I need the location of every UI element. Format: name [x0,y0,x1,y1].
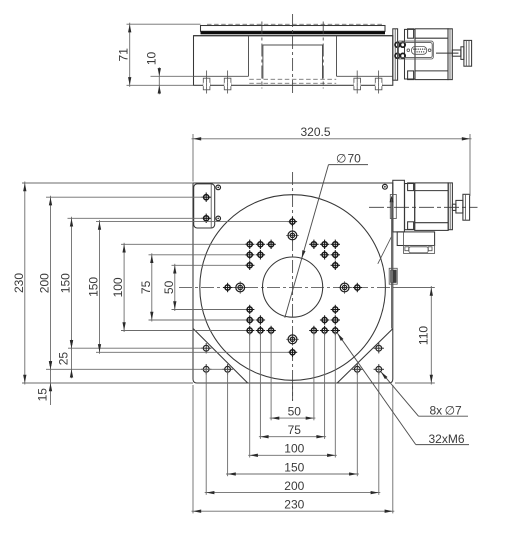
plan view: M6 hole top axis [288,217,297,226]
extension line left y=383.0 [22,382,193,384]
svg-text:230: 230 [284,498,304,512]
side view: table edge centerline left [261,22,263,89]
extension line bottom x=227.6 [227,369,229,476]
side view: vertical centerline [292,14,294,93]
extension line bottom x=249.7 [249,331,251,458]
dimension 75 (bottom) [259,423,326,438]
svg-text:150: 150 [87,277,101,297]
label 8xØ7 with leader [380,371,468,418]
side view: motor shaft [452,50,461,56]
svg-text:71: 71 [117,48,131,62]
side view: right cavity bottom [337,75,393,77]
dimension 200 (bottom) [205,479,381,494]
side view: motor end cap [448,29,452,80]
dimension 100 (bottom) [248,442,337,457]
svg-text:230: 230 [12,273,26,293]
plan view: corner chamfer bottom-left [193,329,247,383]
plan view: M6 hole left axis [223,283,232,292]
extension line bottom x=206.2 [205,369,207,495]
plan view: motor centerline [369,206,478,208]
side view: table plate thick edge [201,31,386,34]
plan view: motor flange tab bottom [408,222,414,230]
dimension 50 (left) [162,264,177,311]
side view: body top edge [194,35,393,37]
plan view: corner hole BR-right [374,364,384,374]
dimension 320.5 extension right [469,134,471,196]
plan view: bracket leader arrow [378,196,394,329]
side view: D-sub connector [398,41,434,59]
dimension 110 extension top [396,287,435,289]
plan view: counterbore hole bottom [286,333,299,346]
plan view: bracket screw upper [216,185,221,190]
side view: table top plate [201,26,386,32]
dimension 320.5 [192,125,472,140]
extension line bottom x=313.9 [313,331,315,421]
side view: motor flange tab top [408,29,414,38]
dimension 200 (left) [38,196,53,371]
svg-text:150: 150 [284,460,304,474]
plan view: M6 hole group bottom-left [245,305,276,335]
plan view: base corner screw [383,184,388,189]
extension line left y=254.8 [149,254,247,256]
svg-text:50: 50 [162,280,176,294]
svg-text:∅ 70: ∅ 70 [336,152,361,166]
extension line left y=320.0 [149,319,247,321]
dimension 150 inner (left) [87,220,102,354]
dimension 71 extension top [127,23,201,25]
label 32xM6 with leader [336,332,469,446]
extension line left y=218.3 [68,217,204,219]
dimension 10 extension [151,75,194,77]
side view: mounting screw 3 [354,71,361,94]
dimension 100 (left) [111,243,126,332]
plan view: corner hole BR-top [374,343,384,353]
side view: stage body [194,36,393,86]
extension line left y=221.6 [96,221,289,223]
dimension 71 extension bottom (baseline) [127,84,194,86]
plan view: knob collar [456,200,463,213]
svg-text:50: 50 [288,405,302,419]
plan view: motor bracket [390,180,404,232]
extension line bottom x=392.8 [392,385,394,513]
extension line bottom x=271.1 [270,331,272,421]
side view: bracket screws upper [395,42,405,47]
side view: right cavity wall [336,36,338,77]
side view: knob disc [464,40,472,66]
svg-text:15: 15 [35,388,49,402]
plan view: bracket screw lower [216,216,221,221]
dimension 110 (right) [416,286,433,385]
svg-text:32xM6: 32xM6 [429,432,465,446]
extension line bottom x=335.3 [334,331,336,458]
extension line left y=348.2 [68,347,203,349]
side view: worm housing box [263,45,323,79]
svg-text:110: 110 [416,326,430,345]
dimension 15 (left) [35,361,52,405]
side view: left cavity wall [248,36,250,77]
plan view: counterbore hole left [234,281,247,294]
side view: motor centerline [436,52,459,54]
plan view: center bore [263,257,323,317]
plan view: clamp bracket [194,184,215,228]
dimension 110 extension bottom [395,382,435,384]
plan view: centerline below base [292,383,294,401]
plan view: M6 hole group bottom-right [309,305,340,335]
extension line left y=265.3 [172,264,247,266]
svg-text:200: 200 [284,479,304,493]
dimension 75 (left) [139,253,154,321]
plan view: corner hole BL-right [222,364,232,374]
plan view: corner hole BR-left [352,364,362,374]
svg-text:200: 200 [38,273,52,293]
extension line bottom x=193.0 [192,385,194,513]
dimension 10 (base plate height) [144,52,161,95]
extension line left y=244.3 [121,243,246,245]
side view: left cavity bottom [194,75,249,77]
side view: motor bracket [393,29,398,80]
extension line left y=309.5 [172,309,247,311]
plan view: M6 hole group top-right [309,240,340,270]
extension line left y=183.0 [22,182,193,184]
side view: motor flange tab bottom [408,71,414,80]
extension line left y=352.3 [96,351,289,353]
svg-text:150: 150 [59,273,73,293]
plan view: M6 hole bottom axis [288,348,297,357]
plan view: motor flange [405,184,415,230]
plan view: vertical centerline [292,172,294,401]
svg-text:25: 25 [56,352,70,366]
side view: hidden bottom line 2 [249,82,336,84]
plan view: counterbore hole top [286,229,299,242]
plan view: M6 hole group top-left [245,240,276,270]
plan view: motor end cap [448,183,452,230]
plan view: rotary table circle [200,195,386,381]
plan view: counterbore hole right [338,281,351,294]
extension line bottom x=324.6 [324,331,326,439]
plan view: corner hole BL-left [201,364,211,374]
plan view: M6 hole right axis [353,283,362,292]
plan view: motor body [415,183,449,231]
plan view: base plate [193,183,393,383]
dimension 230 (bottom) [192,498,395,513]
extension line bottom x=357.3 [356,369,358,476]
dimension 320.5 extension left [192,134,194,182]
svg-text:320.5: 320.5 [300,125,330,139]
svg-text:10: 10 [144,52,158,66]
side view: mounting screw 2 [224,71,231,94]
svg-text:75: 75 [288,423,302,437]
extension line left y=369.3 [46,368,224,370]
side view: motor flange [405,29,416,79]
plan view: side connector [389,268,397,284]
side view: table edge centerline right [322,22,324,89]
extension line left y=330.5 [121,330,246,332]
dimension 25 (left) [56,339,73,378]
side view: mounting screw 1 [203,71,210,94]
dimension 71 (side view height) [117,23,132,87]
plan view: motor flange tab top [408,183,414,191]
dimension 150 outer (left) [59,217,74,350]
svg-text:100: 100 [111,277,125,297]
side view: knob collar [461,47,464,60]
svg-text:75: 75 [139,280,153,294]
plan view: bracket M6 hole lower [202,214,211,223]
plan view: bracket M6 hole upper [202,193,211,202]
plan view: horizontal centerline [179,287,398,289]
extension line left y=197.2 [46,196,203,198]
side view: motor body [415,29,448,80]
plan view: corner hole BL-top [201,343,211,353]
plan view: corner chamfer bottom-right [337,329,392,383]
dimension 230 (left) [12,182,27,385]
label Ø70 with leader [285,152,368,318]
svg-text:100: 100 [284,442,304,456]
extension line bottom x=378.8 [378,369,380,495]
plan view: knob disc [463,194,470,220]
plan view: gearbox housing [397,232,434,246]
extension line bottom x=260.4 [259,331,261,439]
plan view: motor shaft [452,204,456,210]
svg-text:8x ∅7: 8x ∅7 [430,404,463,418]
side view: hidden bottom line 1 [249,78,336,80]
side view: mounting screw 4 [375,71,382,94]
side view: bracket screws lower [395,53,405,58]
dimension 150 (bottom) [226,460,359,475]
side view: plate hidden edge dashed [207,23,384,25]
plan view: motor connector [404,246,435,254]
dimension 50 (bottom) [270,405,316,420]
